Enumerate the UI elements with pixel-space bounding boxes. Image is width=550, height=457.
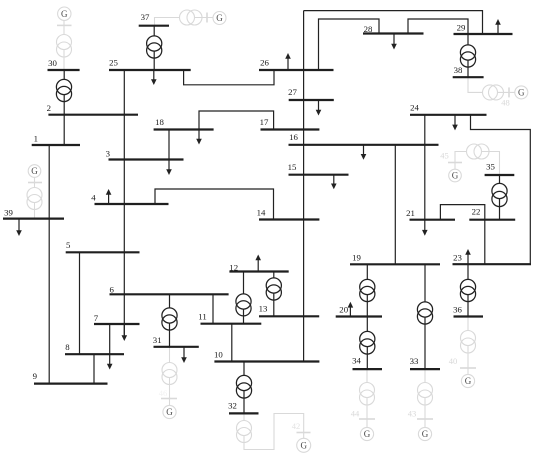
bus 2 <box>47 103 138 115</box>
svg-text:27: 27 <box>288 87 297 97</box>
bus 31 <box>153 335 199 347</box>
wire 6-31 <box>169 294 171 347</box>
svg-text:30: 30 <box>48 58 57 68</box>
svg-text:18: 18 <box>155 117 164 127</box>
generator G at bus 35 (faded) <box>449 169 462 182</box>
wire bus chain 1-39-9 <box>48 145 50 384</box>
transformer 29-38 <box>460 45 475 67</box>
bus 4 <box>91 193 168 204</box>
load arrow bus 31 <box>181 347 187 363</box>
transformer 12-11 <box>236 294 251 316</box>
load arrow bus 27 <box>316 100 322 116</box>
bus 16 <box>289 132 439 145</box>
bus 38 <box>453 65 484 77</box>
wire 19-20 <box>366 264 368 316</box>
bus 5 <box>66 240 140 252</box>
load arrow bus 20 <box>348 302 354 317</box>
wire 6-11 <box>212 294 214 323</box>
svg-text:36: 36 <box>453 304 462 314</box>
bus 8 <box>65 342 124 354</box>
svg-text:2: 2 <box>47 103 51 113</box>
svg-text:G: G <box>300 441 307 451</box>
svg-text:8: 8 <box>65 342 70 352</box>
wire 30-2-1 <box>63 70 65 145</box>
svg-text:21: 21 <box>406 208 415 218</box>
bus 21 <box>406 208 455 220</box>
svg-text:34: 34 <box>352 356 361 366</box>
bus 6 <box>109 285 228 295</box>
wire 23-24 (right route) <box>471 115 531 264</box>
svg-text:G: G <box>364 429 371 439</box>
svg-text:35: 35 <box>486 162 495 172</box>
wire 4-14 (top route) <box>155 189 274 220</box>
generator lead bus 37 (faded) <box>155 18 214 26</box>
generator G at bus 32 (faded) <box>297 438 311 452</box>
bus 35 <box>485 162 515 176</box>
wire 8-9 <box>93 354 95 383</box>
wire 37-25 <box>153 26 155 70</box>
generator transformer bus 34 (faded) <box>360 383 375 406</box>
wire 21-22 (top route) <box>440 205 484 220</box>
generator transformer bus 35 (faded) <box>467 144 490 159</box>
generator transformer bus 32 (faded) <box>237 421 252 443</box>
bus 3 <box>106 149 184 160</box>
wire 23-36 <box>467 264 469 316</box>
bus 34 <box>352 356 382 369</box>
svg-text:16: 16 <box>289 132 298 142</box>
svg-text:37: 37 <box>141 12 150 22</box>
svg-text:12: 12 <box>229 262 238 272</box>
generator lead bus 38 (faded) <box>468 77 515 92</box>
bus 36 <box>453 304 483 316</box>
svg-text:32: 32 <box>228 401 237 411</box>
svg-text:5: 5 <box>66 240 71 250</box>
load arrow bus 39 <box>16 219 22 236</box>
svg-text:10: 10 <box>214 350 223 360</box>
svg-text:G: G <box>465 376 472 386</box>
generator transformer bus 37 (faded) <box>180 10 203 25</box>
generator lead bus 39 (faded) <box>34 177 36 218</box>
svg-text:19: 19 <box>352 252 361 262</box>
wire 16-19 <box>394 145 396 264</box>
load arrow bus 24 <box>452 115 458 131</box>
svg-text:26: 26 <box>260 58 269 68</box>
wire 35-22 <box>499 175 501 220</box>
svg-text:G: G <box>31 166 38 176</box>
transformer 19-20 <box>360 279 375 301</box>
bus 19 <box>350 252 440 264</box>
generator bar at bus 30 (faded) <box>57 24 72 26</box>
generator G at bus 38 (faded) <box>515 86 528 99</box>
generator transformer bus 36 (faded) <box>461 331 476 354</box>
svg-text:45: 45 <box>440 151 449 161</box>
generator transformer bus 33 (faded) <box>418 383 433 406</box>
load arrow bus 23 <box>465 249 471 264</box>
svg-text:1: 1 <box>34 133 38 143</box>
bus 26 <box>259 58 334 70</box>
bus 13 <box>259 304 320 317</box>
svg-text:17: 17 <box>260 117 269 127</box>
load arrow bus 28 <box>391 34 397 50</box>
transformer 23-36 <box>460 279 475 301</box>
bus 27 <box>288 87 334 100</box>
load arrow bus 21 <box>422 220 428 236</box>
svg-text:3: 3 <box>106 149 111 159</box>
load arrow bus 15 <box>331 175 337 190</box>
load arrow bus 25 <box>151 70 157 85</box>
generator lead bus 36 (faded) <box>467 317 469 375</box>
wire 22-23 <box>484 220 486 265</box>
bus 33 <box>410 356 440 369</box>
bus 10 <box>214 350 319 362</box>
bus 12 <box>229 262 288 272</box>
load arrow bus 16 <box>361 145 367 160</box>
bus 30 <box>48 58 80 70</box>
svg-text:38: 38 <box>454 65 463 75</box>
generator lead bus 31 (faded) <box>169 347 171 406</box>
svg-text:6: 6 <box>109 285 114 295</box>
bus 1 <box>32 133 80 145</box>
wire 12-13 <box>273 272 275 317</box>
svg-text:39: 39 <box>4 208 13 218</box>
generator transformer bus 31 (faded) <box>162 363 177 385</box>
generator bar at bus 38 (faded) <box>508 87 510 97</box>
transformer 20-34 <box>360 331 375 354</box>
bus 9 <box>33 371 108 383</box>
wire bus chain 26-27-17-16-15-14-13-10 <box>303 11 305 362</box>
svg-text:33: 33 <box>410 356 419 366</box>
load arrow bus 26 <box>285 53 291 70</box>
generator lead bus 33 (faded) <box>424 370 426 428</box>
svg-text:48: 48 <box>501 98 510 108</box>
transformer 37-25 <box>147 36 162 58</box>
generator lead bus 32 (faded) <box>244 413 304 449</box>
bus 24 <box>410 103 487 115</box>
wire 10-32 <box>243 362 245 414</box>
bus 22 <box>469 207 515 220</box>
transformer 12-13 <box>266 278 281 300</box>
generator G at bus 37 (faded) <box>213 12 226 25</box>
wire 12-11 <box>243 272 245 324</box>
transformer 30-2 <box>56 79 71 101</box>
generator bar at bus 31 (faded) <box>161 398 177 400</box>
generator bar at bus 35 (faded) <box>448 162 462 164</box>
svg-text:G: G <box>452 171 459 181</box>
bus 39 <box>3 208 64 219</box>
svg-text:13: 13 <box>259 304 268 314</box>
bus 14 <box>257 208 320 220</box>
svg-text:28: 28 <box>364 24 373 34</box>
load arrow bus 3 <box>166 160 172 176</box>
svg-text:25: 25 <box>109 58 118 68</box>
transformer 22-35 <box>492 183 507 206</box>
generator bar at bus 32 (faded) <box>297 432 311 434</box>
wire bus chain 25-2-3-4-5-6-7 <box>123 70 125 335</box>
wire 24-16-21 <box>424 115 426 220</box>
wire 19-33 <box>424 264 426 369</box>
svg-text:44: 44 <box>351 409 360 419</box>
wire 29-38 <box>467 34 469 77</box>
svg-text:7: 7 <box>94 313 99 323</box>
generator lead bus 35 (faded) <box>455 152 500 176</box>
svg-text:9: 9 <box>33 371 38 381</box>
load arrow bus 18 <box>196 130 202 145</box>
generator G at bus 36 (faded) <box>461 374 474 387</box>
wire 28-29 <box>408 19 468 34</box>
svg-text:11: 11 <box>198 311 206 321</box>
bus 15 <box>288 162 349 175</box>
load arrow bus 12 <box>255 255 261 272</box>
svg-text:40: 40 <box>449 356 458 366</box>
generator bar at bus 36 (faded) <box>460 367 476 369</box>
svg-text:46: 46 <box>159 388 168 398</box>
svg-text:G: G <box>166 407 173 417</box>
generator bar at bus 37 (faded) <box>206 13 208 23</box>
svg-text:15: 15 <box>288 162 297 172</box>
bus 17 <box>260 117 320 129</box>
generator transformer bus 30 (faded) <box>57 35 72 58</box>
wire 3-18 <box>168 130 170 160</box>
generator lead bus 30 (faded) <box>63 20 65 70</box>
load arrow bus 8 <box>107 354 113 369</box>
generator G at bus 39 (faded) <box>28 165 41 178</box>
transformer 6-31 <box>162 308 177 330</box>
generator G at bus 34 (faded) <box>360 427 373 440</box>
wire 26-29 (top route) <box>304 11 483 34</box>
svg-text:31: 31 <box>153 335 162 345</box>
svg-text:42: 42 <box>292 421 301 431</box>
bus 20 <box>336 305 382 317</box>
generator bar at bus 34 (faded) <box>359 418 375 420</box>
svg-text:G: G <box>216 13 223 23</box>
svg-text:14: 14 <box>257 208 266 218</box>
bus 18 <box>154 117 214 130</box>
load arrow bus 29 <box>495 19 501 34</box>
wire 17-18 (top route) <box>199 111 274 130</box>
bus 28 <box>363 24 424 34</box>
bus 23 <box>453 252 532 264</box>
bus 32 <box>228 401 258 414</box>
bus 37 <box>139 12 169 26</box>
load arrow bus 4 <box>106 189 112 204</box>
transformer 19-33 <box>417 302 432 324</box>
svg-text:23: 23 <box>453 252 462 262</box>
wire 25-26 (dip route) <box>184 70 274 85</box>
transformer 10-32 <box>236 375 251 398</box>
generator G at bus 31 (faded) <box>163 405 176 418</box>
wire 7-8 <box>109 324 111 354</box>
bus 25 <box>109 58 191 71</box>
svg-text:24: 24 <box>410 103 419 113</box>
generator bar at bus 33 (faded) <box>417 418 433 420</box>
load arrow bus 7 <box>122 324 128 341</box>
svg-text:20: 20 <box>339 305 348 315</box>
wire 10-11 <box>231 324 233 362</box>
svg-text:43: 43 <box>408 409 417 419</box>
wire 20-34 <box>366 317 368 370</box>
svg-text:G: G <box>61 9 68 19</box>
svg-text:22: 22 <box>472 207 481 217</box>
generator G at bus 30 (faded) <box>58 7 71 20</box>
wire 5-8 <box>79 252 81 354</box>
bus 11 <box>198 311 261 323</box>
svg-text:29: 29 <box>457 23 466 33</box>
generator bar at bus 39 (faded) <box>28 182 42 184</box>
generator transformer bus 39 (faded) <box>27 188 42 210</box>
generator lead bus 34 (faded) <box>366 370 368 428</box>
svg-text:4: 4 <box>91 193 96 203</box>
wire 26-28 <box>319 19 380 70</box>
bus 29 <box>454 23 513 34</box>
svg-text:G: G <box>422 429 429 439</box>
generator transformer bus 38 (faded) <box>483 85 504 100</box>
generator G at bus 33 (faded) <box>418 427 431 440</box>
bus 7 <box>94 313 140 324</box>
svg-text:G: G <box>518 88 525 98</box>
